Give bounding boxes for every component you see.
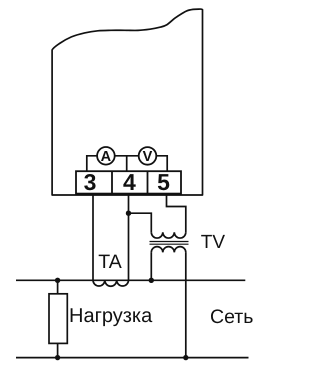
load resistor bbox=[49, 294, 67, 344]
junction node load on N bbox=[55, 355, 60, 360]
svg-text:Нагрузка: Нагрузка bbox=[69, 305, 153, 327]
voltage transformer TV secondary winding bbox=[151, 247, 186, 253]
wire from terminal 5 to TV primary bbox=[167, 195, 186, 233]
wire branch terminal 4 to TV primary bbox=[129, 213, 152, 232]
svg-text:Сеть: Сеть bbox=[210, 306, 253, 328]
junction node TV tap on L bbox=[149, 278, 154, 283]
terminal block bbox=[76, 171, 181, 193]
svg-text:3: 3 bbox=[84, 169, 97, 195]
meter wiring bracket (A and V loop) bbox=[87, 156, 167, 172]
wire from terminal 3 down to TA bbox=[92, 195, 94, 281]
wire from terminal 4 down to TA bbox=[128, 195, 130, 281]
TV core line 2 bbox=[150, 243, 189, 245]
TV core line 1 bbox=[150, 241, 189, 243]
mains line N (bottom wire) bbox=[16, 357, 249, 359]
svg-text:4: 4 bbox=[123, 169, 136, 195]
svg-text:TV: TV bbox=[201, 232, 226, 253]
voltmeter U2 circle V bbox=[139, 147, 157, 165]
wire TV secondary left lead to mains L bbox=[150, 252, 152, 280]
svg-text:A: A bbox=[101, 149, 112, 165]
meter body outline bbox=[52, 9, 202, 195]
wire load lower lead bbox=[57, 343, 59, 357]
svg-text:TA: TA bbox=[98, 251, 121, 273]
junction node on terminal 4 wire bbox=[126, 211, 131, 216]
mains line L (top wire) bbox=[16, 279, 245, 281]
junction node TV on N bbox=[183, 355, 188, 360]
svg-text:5: 5 bbox=[157, 169, 170, 195]
voltage transformer TV primary winding bbox=[151, 232, 186, 238]
terminal divider 4|5 bbox=[147, 171, 149, 193]
junction node load tap on L bbox=[55, 278, 60, 283]
ammeter U1 circle A bbox=[97, 147, 115, 165]
terminal divider 3|4 bbox=[111, 171, 113, 193]
svg-text:V: V bbox=[143, 149, 153, 165]
wire TV secondary right lead to mains N bbox=[185, 252, 187, 357]
wire load upper lead bbox=[57, 280, 59, 294]
current transformer TA secondary winding bbox=[93, 280, 129, 286]
